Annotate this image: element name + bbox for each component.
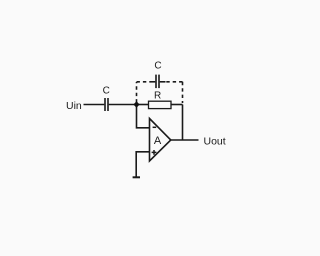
svg-text:C: C [103,86,110,97]
svg-text:Uin: Uin [66,100,82,112]
svg-text:C: C [154,61,161,72]
svg-text:A: A [154,135,162,147]
svg-text:R: R [154,91,161,102]
svg-text:Uout: Uout [204,135,226,147]
